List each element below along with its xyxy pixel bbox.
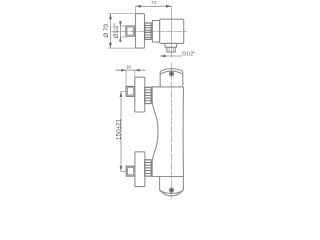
outlet thread top view	[167, 47, 175, 52]
svg-text:G1/2": G1/2"	[182, 51, 195, 57]
lower escutcheon	[135, 152, 145, 187]
ring collar top view	[152, 21, 159, 43]
centerline horizontal top view	[112, 30, 188, 32]
knurl ladder top view	[145, 23, 152, 39]
dim 150 ext lower	[121, 170, 127, 172]
svg-text:Ø 70: Ø 70	[103, 24, 110, 38]
centerline vertical front view	[171, 63, 173, 199]
body left edge with bosses	[152, 87, 160, 177]
dia 1/2 outside arrows	[119, 21, 121, 42]
svg-text:18: 18	[126, 64, 131, 69]
svg-text:74: 74	[151, 0, 156, 5]
svg-text:Ø1/2": Ø1/2"	[114, 23, 120, 38]
stem nut top view	[126, 26, 134, 36]
dim 74 ext right / axis top	[171, 6, 173, 13]
dia70 ext bottom	[109, 47, 136, 49]
dim 74 ext left	[135, 6, 137, 13]
upper escutcheon	[135, 77, 145, 112]
body top view	[160, 19, 184, 43]
dim 18 ext lines	[125, 70, 127, 86]
dia70 dim vline	[109, 14, 111, 48]
lower knurl	[145, 160, 151, 176]
svg-text:150±21: 150±21	[116, 118, 123, 140]
shoulder bottom	[152, 176, 183, 178]
dim 18 line	[116, 69, 146, 71]
upper knurl	[145, 87, 151, 103]
bottom screw	[169, 188, 173, 192]
top cap seam	[160, 71, 183, 74]
shoulder top	[152, 86, 183, 88]
lower union nut	[126, 166, 135, 176]
top cap front view	[160, 69, 183, 87]
top screw	[169, 72, 173, 76]
outlet axis vertical	[171, 13, 173, 58]
upper union nut	[126, 86, 135, 96]
body right edge	[182, 87, 184, 177]
dim 150 vline	[120, 92, 122, 172]
stem ext bottom	[120, 36, 126, 38]
G 1/2 leader	[160, 55, 182, 57]
dim 150 ext upper	[121, 91, 127, 93]
bottom cap rim	[160, 189, 184, 196]
dim 74 line	[136, 5, 172, 7]
stem ext top	[120, 25, 126, 27]
dia70 ext top	[109, 13, 136, 15]
bottom cap front view	[160, 177, 184, 194]
outlet nut top view	[165, 43, 177, 47]
handle plate top view	[136, 14, 145, 48]
